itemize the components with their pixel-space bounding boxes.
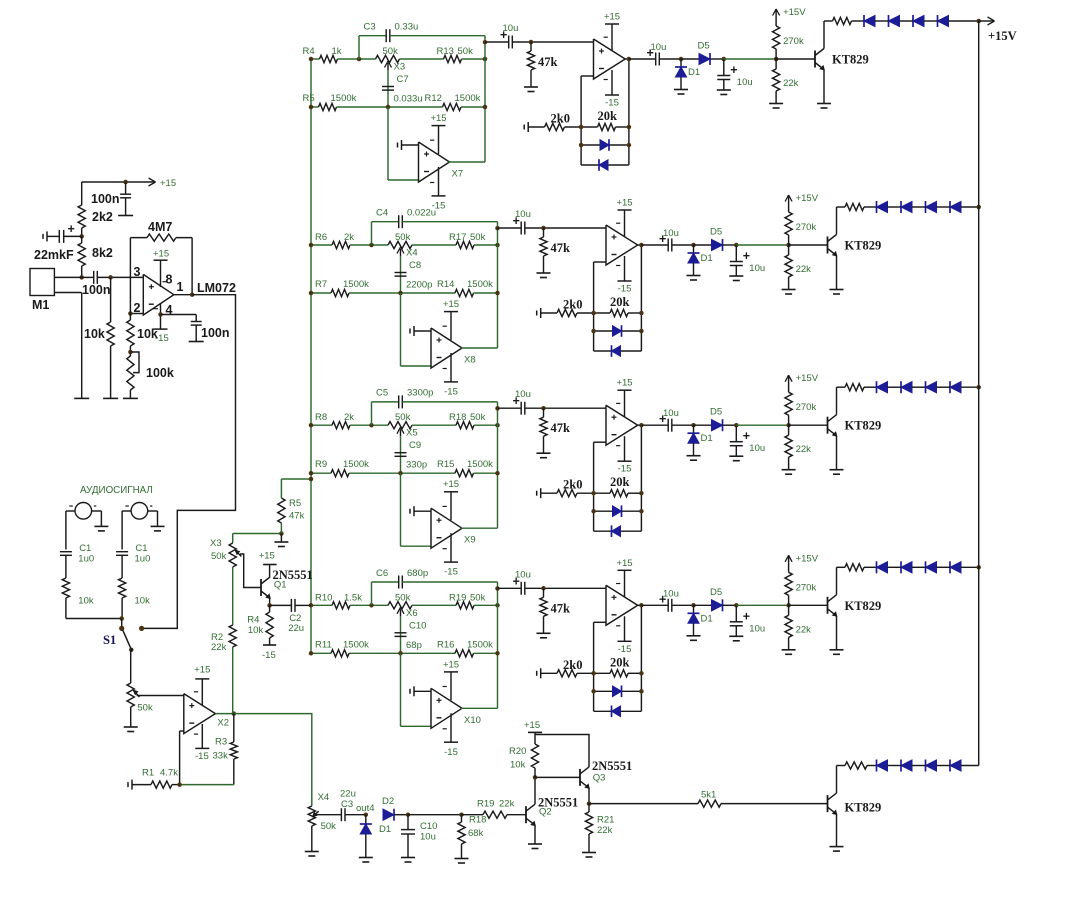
svg-text:270k: 270k: [796, 582, 817, 593]
svg-text:KT829: KT829: [845, 419, 882, 433]
svg-text:10u: 10u: [663, 588, 679, 599]
svg-text:10u: 10u: [749, 443, 765, 454]
svg-text:+15: +15: [604, 12, 620, 23]
svg-text:+: +: [743, 429, 750, 443]
svg-text:10k: 10k: [248, 625, 264, 636]
svg-text:1500k: 1500k: [343, 279, 369, 290]
svg-text:R11: R11: [315, 639, 332, 650]
svg-text:4M7: 4M7: [148, 220, 172, 234]
svg-text:20k: 20k: [610, 655, 630, 669]
svg-text:22k: 22k: [211, 642, 227, 653]
svg-text:X2: X2: [217, 718, 229, 729]
svg-text:10k: 10k: [84, 327, 105, 341]
svg-text:0.022u: 0.022u: [407, 208, 436, 219]
svg-text:C1: C1: [135, 543, 147, 554]
svg-text:-15: -15: [618, 464, 632, 475]
svg-text:C8: C8: [409, 260, 421, 271]
svg-text:20k: 20k: [610, 295, 630, 309]
svg-text:68p: 68p: [406, 640, 422, 651]
svg-text:270k: 270k: [796, 402, 817, 413]
svg-text:3300p: 3300p: [407, 388, 433, 399]
svg-text:1500k: 1500k: [467, 459, 493, 470]
svg-text:+15: +15: [430, 113, 446, 124]
svg-text:10u: 10u: [515, 569, 531, 580]
svg-text:2N5551: 2N5551: [592, 759, 632, 773]
svg-text:10u: 10u: [503, 23, 519, 34]
svg-text:10u: 10u: [515, 209, 531, 220]
svg-text:3: 3: [134, 265, 141, 279]
svg-text:R5: R5: [289, 498, 301, 509]
svg-text:1500k: 1500k: [343, 459, 369, 470]
svg-text:KT829: KT829: [845, 599, 882, 613]
svg-text:47k: 47k: [551, 241, 571, 255]
svg-text:LM072: LM072: [197, 281, 236, 295]
svg-text:R16: R16: [437, 639, 454, 650]
svg-text:+15: +15: [443, 479, 459, 490]
svg-text:10u: 10u: [515, 389, 531, 400]
svg-text:-15: -15: [195, 751, 209, 762]
svg-text:-15: -15: [444, 387, 458, 398]
svg-text:C5: C5: [376, 388, 388, 399]
svg-text:1u0: 1u0: [78, 554, 94, 565]
svg-text:-15: -15: [262, 650, 276, 661]
svg-text:X4: X4: [406, 248, 418, 259]
svg-text:D5: D5: [710, 407, 722, 418]
svg-text:X10: X10: [464, 715, 481, 726]
svg-text:-15: -15: [618, 284, 632, 295]
svg-text:+: +: [68, 222, 75, 236]
svg-text:R17: R17: [449, 232, 466, 243]
svg-text:X7: X7: [452, 169, 464, 180]
svg-text:S1: S1: [103, 633, 116, 647]
svg-text:D1: D1: [701, 253, 713, 264]
svg-text:KT829: KT829: [845, 239, 882, 253]
svg-text:10u: 10u: [420, 832, 436, 843]
svg-text:10k: 10k: [78, 596, 94, 607]
svg-text:10k: 10k: [137, 327, 158, 341]
svg-text:22u: 22u: [288, 623, 304, 634]
svg-text:X5: X5: [406, 428, 418, 439]
svg-text:+15V: +15V: [796, 553, 819, 564]
svg-text:22mkF: 22mkF: [34, 248, 74, 262]
svg-text:68k: 68k: [468, 828, 484, 839]
svg-text:X3: X3: [394, 62, 406, 73]
svg-text:0.033u: 0.033u: [394, 94, 423, 105]
svg-text:1u0: 1u0: [135, 554, 151, 565]
svg-text:KT829: KT829: [832, 53, 869, 67]
svg-text:D5: D5: [710, 587, 722, 598]
svg-text:Q3: Q3: [593, 773, 606, 784]
svg-text:+15: +15: [153, 249, 169, 260]
svg-text:270k: 270k: [796, 222, 817, 233]
svg-text:1.5k: 1.5k: [344, 592, 362, 603]
svg-text:D1: D1: [379, 824, 391, 835]
svg-text:50k: 50k: [470, 232, 486, 243]
svg-text:X3: X3: [210, 538, 222, 549]
svg-text:50k: 50k: [395, 412, 411, 423]
svg-text:100n: 100n: [82, 283, 111, 297]
svg-text:-15: -15: [605, 98, 619, 109]
svg-text:8: 8: [166, 273, 173, 287]
svg-text:680p: 680p: [407, 568, 428, 579]
svg-text:270k: 270k: [783, 36, 804, 47]
svg-text:D1: D1: [701, 433, 713, 444]
svg-text:330p: 330p: [406, 460, 427, 471]
svg-text:Q1: Q1: [274, 580, 287, 591]
svg-text:8k2: 8k2: [92, 246, 113, 260]
svg-text:10k: 10k: [135, 596, 151, 607]
svg-text:+15: +15: [616, 378, 632, 389]
svg-text:-15: -15: [444, 567, 458, 578]
svg-text:2k0: 2k0: [551, 112, 570, 126]
svg-text:100n: 100n: [201, 326, 230, 340]
svg-text:C3: C3: [341, 799, 353, 810]
svg-text:D2: D2: [382, 796, 394, 807]
svg-text:-15: -15: [618, 644, 632, 655]
svg-text:+: +: [743, 609, 750, 623]
svg-text:10u: 10u: [737, 77, 753, 88]
svg-text:C10: C10: [420, 821, 437, 832]
svg-text:R18: R18: [449, 412, 466, 423]
svg-text:47k: 47k: [538, 55, 558, 69]
svg-text:+15V: +15V: [783, 7, 806, 18]
svg-text:D1: D1: [701, 613, 713, 624]
svg-text:47k: 47k: [551, 421, 571, 435]
svg-text:+15: +15: [616, 198, 632, 209]
svg-text:5k1: 5k1: [701, 789, 716, 800]
svg-text:50k: 50k: [395, 592, 411, 603]
svg-text:+15: +15: [259, 551, 275, 562]
svg-text:R12: R12: [425, 93, 442, 104]
svg-text:M1: M1: [32, 298, 49, 312]
svg-text:50k: 50k: [211, 551, 227, 562]
svg-text:1: 1: [177, 280, 184, 294]
svg-text:R10: R10: [315, 592, 332, 603]
svg-text:+: +: [730, 63, 737, 77]
svg-text:D1: D1: [688, 67, 700, 78]
svg-text:C6: C6: [376, 568, 388, 579]
svg-text:10u: 10u: [651, 42, 667, 53]
svg-text:1500k: 1500k: [467, 639, 493, 650]
svg-text:50k: 50k: [470, 412, 486, 423]
svg-text:R21: R21: [597, 815, 614, 826]
svg-text:1k: 1k: [332, 46, 342, 57]
svg-text:47k: 47k: [551, 601, 571, 615]
svg-text:10u: 10u: [749, 623, 765, 634]
svg-text:50k: 50k: [470, 592, 486, 603]
svg-text:1500k: 1500k: [455, 93, 481, 104]
svg-text:C3: C3: [364, 22, 376, 33]
svg-text:out4: out4: [356, 803, 375, 814]
svg-text:АУДИОСИГНАЛ: АУДИОСИГНАЛ: [80, 485, 153, 496]
svg-text:-15: -15: [444, 747, 458, 758]
svg-text:+15: +15: [443, 659, 459, 670]
svg-text:2k2: 2k2: [92, 210, 113, 224]
svg-text:R19: R19: [477, 799, 494, 810]
svg-text:+15: +15: [616, 558, 632, 569]
svg-text:X9: X9: [464, 535, 476, 546]
svg-text:10k: 10k: [510, 760, 526, 771]
svg-text:1500k: 1500k: [331, 93, 357, 104]
svg-text:R18: R18: [469, 815, 486, 826]
svg-text:2k0: 2k0: [563, 298, 582, 312]
svg-text:R1: R1: [142, 768, 154, 779]
svg-text:2k: 2k: [344, 412, 354, 423]
svg-text:R9: R9: [315, 459, 327, 470]
svg-text:2200p: 2200p: [406, 280, 432, 291]
svg-text:10u: 10u: [749, 263, 765, 274]
svg-text:+15V: +15V: [796, 373, 819, 384]
svg-text:R3: R3: [215, 737, 227, 748]
svg-text:R8: R8: [315, 412, 327, 423]
svg-text:33k: 33k: [213, 751, 229, 762]
svg-text:10u: 10u: [663, 408, 679, 419]
svg-text:R20: R20: [509, 746, 526, 757]
svg-text:+15V: +15V: [988, 29, 1017, 43]
svg-text:2k0: 2k0: [563, 478, 582, 492]
svg-text:R7: R7: [315, 279, 327, 290]
svg-text:R4: R4: [247, 614, 259, 625]
svg-text:22k: 22k: [796, 624, 812, 635]
svg-text:20k: 20k: [598, 109, 618, 123]
svg-text:D5: D5: [710, 227, 722, 238]
svg-text:2k: 2k: [344, 232, 354, 243]
svg-text:50k: 50k: [137, 703, 153, 714]
svg-text:R5: R5: [303, 93, 315, 104]
svg-text:+: +: [743, 249, 750, 263]
svg-text:KT829: KT829: [845, 801, 882, 815]
svg-text:100n: 100n: [91, 192, 120, 206]
svg-text:Q2: Q2: [539, 807, 552, 818]
svg-text:D5: D5: [698, 41, 710, 52]
svg-text:1500k: 1500k: [467, 279, 493, 290]
svg-text:50k: 50k: [383, 46, 399, 57]
svg-text:2k0: 2k0: [563, 658, 582, 672]
svg-text:X6: X6: [406, 608, 418, 619]
svg-text:10u: 10u: [663, 228, 679, 239]
svg-text:22k: 22k: [796, 264, 812, 275]
svg-text:R13: R13: [437, 46, 454, 57]
svg-text:22u: 22u: [340, 789, 356, 800]
svg-text:20k: 20k: [610, 475, 630, 489]
svg-text:4.7k: 4.7k: [160, 768, 178, 779]
svg-text:C9: C9: [409, 440, 421, 451]
svg-text:R4: R4: [303, 46, 315, 57]
svg-text:R14: R14: [437, 279, 454, 290]
svg-text:R19: R19: [449, 592, 466, 603]
svg-text:50k: 50k: [458, 46, 474, 57]
svg-text:R6: R6: [315, 232, 327, 243]
svg-text:+15: +15: [443, 299, 459, 310]
svg-text:50k: 50k: [395, 232, 411, 243]
svg-text:47k: 47k: [289, 511, 305, 522]
svg-text:22k: 22k: [783, 78, 799, 89]
svg-text:R15: R15: [437, 459, 454, 470]
svg-text:C7: C7: [397, 74, 409, 85]
svg-text:22k: 22k: [796, 444, 812, 455]
svg-text:22k: 22k: [499, 799, 515, 810]
svg-text:+15: +15: [194, 665, 210, 676]
svg-text:50k: 50k: [321, 821, 337, 832]
svg-text:+15: +15: [524, 720, 540, 731]
svg-text:0.33u: 0.33u: [395, 22, 419, 33]
svg-text:X8: X8: [464, 355, 476, 366]
svg-text:+15V: +15V: [796, 193, 819, 204]
svg-text:C10: C10: [409, 620, 426, 631]
svg-text:+15: +15: [160, 178, 176, 189]
svg-text:X4: X4: [318, 792, 330, 803]
svg-text:100k: 100k: [146, 366, 174, 380]
svg-text:1500k: 1500k: [343, 639, 369, 650]
svg-text:C4: C4: [376, 208, 388, 219]
svg-text:22k: 22k: [597, 825, 613, 836]
svg-text:C1: C1: [79, 543, 91, 554]
